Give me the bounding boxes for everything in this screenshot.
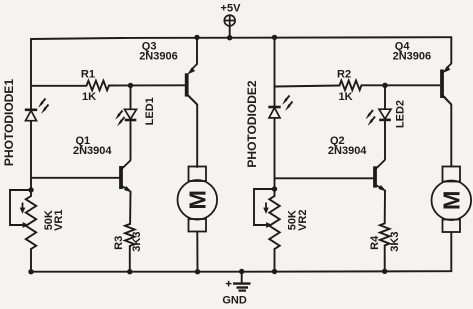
VR1 wiper arrow [20, 203, 28, 228]
node top rail / +5V [227, 35, 232, 40]
wire Q1 base [31, 177, 119, 179]
svg-text:3K3: 3K3 [389, 232, 401, 252]
svg-text:VR2: VR2 [297, 209, 309, 230]
LED LED2 [379, 109, 391, 120]
potentiometer VR2 body [269, 196, 279, 249]
node bottom rail / R3 [127, 269, 132, 274]
transistor Q1 (2N3904 NPN) [121, 160, 132, 192]
node VR2 wiper tap [272, 186, 277, 191]
wire R1 left lead [31, 85, 87, 87]
wire R2 to Q4 base [362, 84, 440, 86]
svg-text:1K: 1K [82, 91, 96, 103]
wire +5V stem [229, 26, 231, 38]
transistor Q3 (2N3906 PNP) [187, 64, 197, 105]
svg-text:R1: R1 [81, 69, 95, 81]
photodiode PHOTODIODE2 [268, 107, 280, 118]
transistor Q2 (2N3904 NPN) [375, 160, 386, 192]
wire middle rail lower [274, 249, 276, 272]
svg-text:2N3906: 2N3906 [139, 50, 178, 62]
wire LED2 branch upper [384, 85, 386, 109]
svg-text:R4: R4 [369, 235, 381, 250]
node VR1 wiper tap [28, 187, 33, 192]
wire motor M1 to bottom rail [196, 232, 198, 272]
ground symbol [226, 281, 251, 291]
resistor R4 [380, 223, 390, 245]
resistor R1 [87, 81, 110, 91]
resistor R3 [125, 224, 135, 246]
photodiode PHOTODIODE1 [25, 110, 37, 121]
wire LED2 to Q2 collector [384, 121, 386, 160]
wire Q4 collector to motor [444, 97, 451, 167]
light arrows out of LED1 [116, 111, 125, 126]
node bottom rail / motor M1 [195, 269, 200, 274]
svg-text:3K3: 3K3 [131, 232, 143, 252]
light arrows out of LED2 [366, 110, 375, 125]
wire Q3 emitter from rail [196, 38, 198, 65]
wire R2 left lead [275, 86, 340, 87]
wire VR1 wiper bracket [10, 190, 31, 225]
wire LED1 branch upper [130, 86, 132, 109]
svg-text:LED2: LED2 [395, 100, 407, 128]
node top rail / Q3 emitter [194, 35, 199, 40]
resistor R2 [340, 81, 362, 91]
svg-text:+5V: +5V [221, 3, 242, 15]
svg-text:2N3906: 2N3906 [393, 50, 432, 62]
node R2 / LED2 [382, 83, 387, 88]
wire VR2 wiper bracket [254, 189, 275, 225]
node bottom rail / R4 [382, 269, 387, 274]
svg-text:2N3904: 2N3904 [73, 145, 112, 157]
svg-text:VR1: VR1 [53, 209, 65, 230]
wire R3 to bottom rail [129, 246, 131, 272]
wire Q2 base [275, 177, 374, 179]
wire middle rail upper [274, 38, 276, 107]
motor M2 [432, 167, 472, 233]
node R1 / LED1 [128, 83, 133, 88]
svg-text:1K: 1K [339, 91, 353, 103]
node bottom rail / middle rail [272, 269, 277, 274]
wire top rail +5V [31, 37, 451, 39]
svg-text:M: M [184, 190, 210, 210]
svg-text:GND: GND [222, 295, 247, 307]
wire GND stem [241, 272, 243, 283]
wire LED1 to Q1 collector [130, 121, 132, 160]
svg-text:PHOTODIODE2: PHOTODIODE2 [245, 80, 259, 167]
VR2 wiper arrow [264, 203, 272, 228]
wire R4 to bottom rail [384, 245, 386, 271]
potentiometer VR1 body [26, 196, 36, 249]
svg-text:R2: R2 [337, 69, 351, 81]
wire Q3 collector to motor [189, 96, 198, 167]
wire left rail lower [30, 249, 32, 272]
svg-text:PHOTODIODE1: PHOTODIODE1 [2, 79, 16, 166]
light arrows into PHOTODIODE1 [39, 99, 49, 114]
wire motor M2 to bottom rail [450, 232, 452, 271]
node bottom rail / GND [239, 269, 244, 274]
wire left rail mid [30, 121, 32, 196]
node top rail / middle rail [272, 35, 277, 40]
wire Q2 emitter to R4 [384, 191, 386, 224]
wire R1 to Q3 base [109, 84, 184, 86]
node bottom rail / left rail [28, 269, 33, 274]
power +5V symbol [224, 15, 235, 26]
LED LED1 [125, 109, 137, 120]
wire middle rail mid [274, 119, 276, 196]
motor M1 [178, 167, 218, 232]
wire Q4 emitter from rail [450, 37, 452, 63]
transistor Q4 (2N3906 PNP) [442, 64, 451, 105]
light arrows into PHOTODIODE2 [283, 96, 293, 111]
wire Q1 emitter to R3 [129, 192, 131, 225]
svg-text:2N3904: 2N3904 [328, 145, 367, 157]
svg-text:R3: R3 [113, 236, 125, 250]
wire left rail upper [30, 39, 32, 110]
svg-text:M: M [438, 191, 464, 211]
svg-text:LED1: LED1 [144, 97, 156, 125]
wire bottom rail [31, 270, 451, 273]
